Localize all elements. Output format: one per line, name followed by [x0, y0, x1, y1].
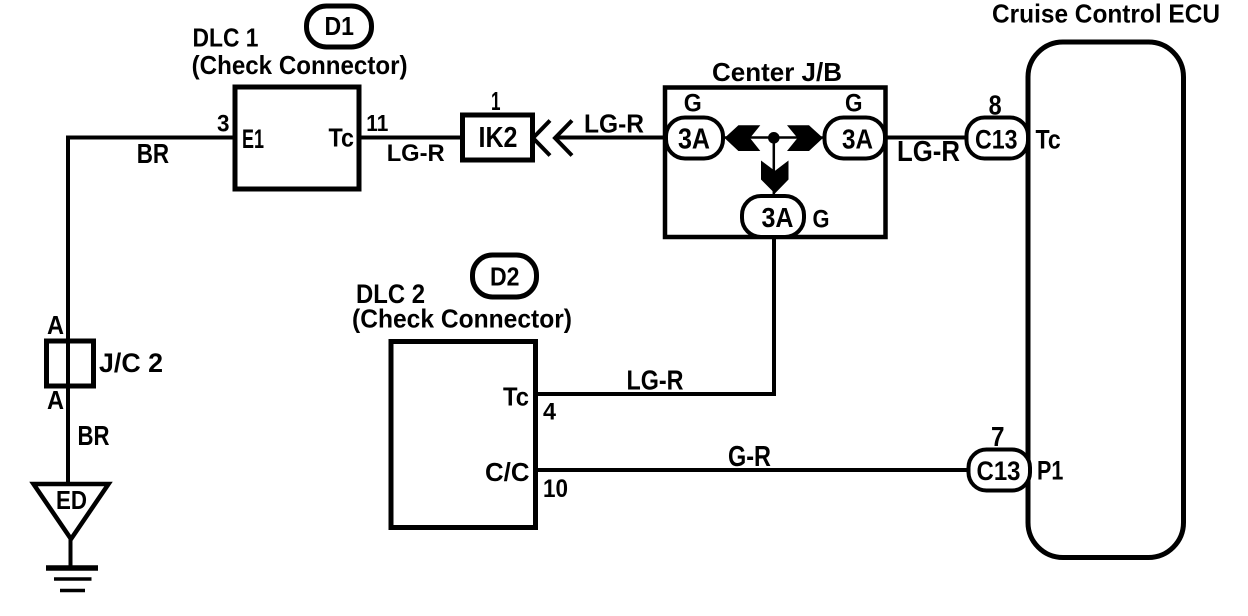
- svg-text:(Check Connector): (Check Connector): [352, 304, 572, 334]
- svg-text:BR: BR: [78, 420, 110, 451]
- svg-text:Tc: Tc: [503, 382, 529, 412]
- svg-text:7: 7: [991, 421, 1005, 452]
- svg-text:C13: C13: [977, 456, 1021, 486]
- svg-text:3: 3: [217, 110, 230, 137]
- svg-text:IK2: IK2: [479, 122, 518, 154]
- svg-text:Cruise Control ECU: Cruise Control ECU: [992, 0, 1220, 29]
- svg-text:3A: 3A: [762, 202, 794, 233]
- svg-text:4: 4: [543, 398, 557, 425]
- svg-text:G: G: [684, 90, 702, 118]
- svg-text:10: 10: [543, 475, 568, 503]
- svg-text:LG-R: LG-R: [584, 111, 644, 139]
- svg-text:C/C: C/C: [485, 457, 530, 487]
- svg-text:3A: 3A: [678, 124, 710, 156]
- svg-text:11: 11: [366, 110, 388, 136]
- svg-text:ED: ED: [56, 485, 87, 515]
- svg-text:G: G: [813, 206, 830, 234]
- svg-text:A: A: [47, 385, 64, 415]
- svg-text:J/C 2: J/C 2: [99, 348, 163, 378]
- svg-text:8: 8: [989, 89, 1002, 120]
- svg-text:Tc: Tc: [329, 122, 355, 152]
- svg-text:3A: 3A: [842, 124, 873, 155]
- svg-text:E1: E1: [242, 124, 264, 154]
- svg-text:C13: C13: [975, 125, 1018, 155]
- svg-text:LG-R: LG-R: [627, 364, 684, 395]
- svg-text:A: A: [47, 310, 64, 340]
- svg-text:P1: P1: [1037, 456, 1063, 486]
- svg-text:Tc: Tc: [1036, 125, 1061, 155]
- svg-text:Center J/B: Center J/B: [712, 57, 842, 87]
- svg-text:LG-R: LG-R: [387, 140, 445, 167]
- svg-text:D2: D2: [490, 262, 520, 292]
- svg-text:1: 1: [491, 86, 501, 116]
- svg-text:(Check Connector): (Check Connector): [192, 50, 408, 80]
- svg-text:D1: D1: [325, 11, 355, 41]
- svg-text:DLC 1: DLC 1: [193, 22, 259, 52]
- svg-text:G-R: G-R: [728, 441, 771, 473]
- svg-text:BR: BR: [137, 138, 169, 169]
- svg-text:G: G: [845, 90, 863, 118]
- svg-text:LG-R: LG-R: [897, 136, 960, 168]
